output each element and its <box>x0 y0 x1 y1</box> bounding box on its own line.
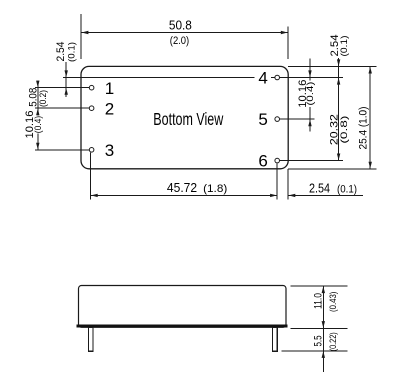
svg-text:2.54: 2.54 <box>309 181 330 195</box>
svg-text:5.5: 5.5 <box>312 336 324 347</box>
svg-text:2: 2 <box>105 99 114 118</box>
svg-text:(0.1): (0.1) <box>337 184 357 196</box>
svg-text:50.8: 50.8 <box>169 18 192 32</box>
svg-text:(0.4): (0.4) <box>305 82 315 106</box>
svg-text:4: 4 <box>258 69 267 88</box>
svg-text:6: 6 <box>258 152 267 171</box>
svg-text:(2.0): (2.0) <box>170 35 189 47</box>
svg-text:(0.2): (0.2) <box>38 90 48 107</box>
svg-text:(0.8): (0.8) <box>339 116 349 144</box>
svg-text:1: 1 <box>105 79 114 98</box>
svg-text:25.4 (1.0): 25.4 (1.0) <box>358 107 370 150</box>
svg-text:2.54: 2.54 <box>55 42 67 62</box>
svg-text:(0.4): (0.4) <box>33 116 43 134</box>
svg-text:5: 5 <box>258 110 267 129</box>
svg-text:(0.1): (0.1) <box>67 42 77 62</box>
svg-text:(1.8): (1.8) <box>203 183 227 195</box>
svg-text:3: 3 <box>105 141 114 160</box>
svg-text:(0.22): (0.22) <box>328 332 338 351</box>
svg-text:(0.1): (0.1) <box>339 36 349 57</box>
svg-text:(0.43): (0.43) <box>328 292 338 312</box>
svg-text:Bottom View: Bottom View <box>153 109 223 129</box>
svg-text:45.72: 45.72 <box>167 181 197 195</box>
svg-text:11.0: 11.0 <box>312 293 324 309</box>
